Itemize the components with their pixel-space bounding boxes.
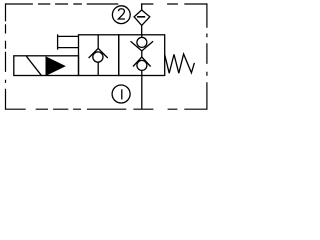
envelope top dashed border: [5, 3, 207, 5]
position box 2: [119, 35, 165, 76]
port 2 line to valve: [141, 25, 143, 34]
filter diamond: [134, 10, 150, 25]
envelope bottom dashed border: [5, 108, 207, 110]
box2 middle stub: [141, 51, 143, 57]
port 2 digit: [118, 9, 125, 19]
manual override lower line: [58, 47, 79, 49]
manual override bar: [57, 34, 59, 49]
filter dash: [137, 16, 145, 18]
box2 lower check valve ball: [137, 60, 147, 70]
box1 check valve upper connector: [97, 35, 99, 49]
envelope left dashed border: [5, 3, 7, 109]
box1 check valve lower connector: [97, 62, 99, 75]
port 2 label circle: [112, 6, 130, 24]
box1 check valve seat: [89, 48, 108, 58]
envelope right dashed border: [206, 3, 208, 109]
solenoid box: [14, 56, 79, 76]
box2 lower connector: [141, 70, 143, 75]
box2 upper check valve seat: [131, 41, 154, 51]
box2 upper check valve ball: [137, 37, 147, 47]
port 1 line: [141, 76, 143, 110]
box2 lower check valve seat: [133, 57, 151, 67]
solenoid arrow (solid triangle): [46, 57, 65, 75]
solenoid diagonal stroke: [26, 56, 41, 75]
return spring: [165, 54, 195, 73]
port 1 label circle: [112, 85, 130, 103]
position box 1: [79, 35, 119, 76]
port 2 line upper: [141, 4, 143, 10]
manual override upper line: [58, 35, 79, 37]
port 1 digit: [121, 89, 123, 99]
box1 check valve ball: [93, 52, 103, 62]
box2 upper connector: [141, 35, 143, 38]
